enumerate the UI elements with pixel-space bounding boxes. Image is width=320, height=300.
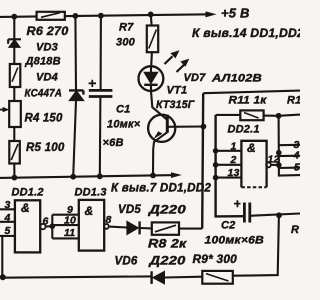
resistor R6 <box>37 12 65 20</box>
svg-text:10: 10 <box>64 215 76 227</box>
LED VD7 <box>139 66 164 91</box>
node mid rail R5 <box>12 175 18 181</box>
capacitor C2 <box>234 200 300 222</box>
node DD1.3 input tie <box>50 223 56 229</box>
zener VD4 <box>69 90 83 100</box>
svg-text:С2: С2 <box>221 220 235 232</box>
svg-text:10мк×: 10мк× <box>107 119 141 131</box>
resistor R4 <box>9 101 21 127</box>
wire right vertical out12 <box>279 116 300 176</box>
wire DD2.2 pin stubs <box>279 145 300 168</box>
wire <box>13 87 15 101</box>
svg-text:&: & <box>21 201 30 215</box>
node top rail / left column junction <box>11 14 17 20</box>
node DD2.1 input 13 <box>213 175 219 181</box>
svg-text:VD4: VD4 <box>36 72 58 84</box>
node base junction <box>201 124 207 130</box>
node top rail C1 branch <box>98 13 104 19</box>
svg-text:R7: R7 <box>119 22 134 34</box>
node DD2.1 input 2 <box>213 162 219 168</box>
wire VT1 emitter down <box>152 149 154 175</box>
transistor VT1 <box>148 115 175 149</box>
svg-text:×6В: ×6В <box>103 137 124 149</box>
wire R8 to vertical A <box>179 228 202 230</box>
diode VD5 <box>127 221 152 234</box>
resistor R11 <box>240 110 263 120</box>
node bottom rail left <box>0 274 6 280</box>
wire C1 top <box>100 16 102 89</box>
gate DD2.1 <box>216 141 279 188</box>
svg-text:11: 11 <box>64 227 75 239</box>
wire bottom-left pin5 drop <box>1 236 3 277</box>
resistor R9 <box>202 271 233 284</box>
node mid rail VD4 branch <box>70 174 76 180</box>
node mid rail C1 branch <box>97 173 103 179</box>
svg-text:Д220: Д220 <box>148 254 185 268</box>
wire LED to VT1 collector <box>151 91 167 120</box>
wire C1 bottom <box>99 97 102 177</box>
wire vertical A <box>202 93 203 228</box>
svg-text:КТ315Г: КТ315Г <box>156 99 196 111</box>
svg-text:Д818В: Д818В <box>25 56 61 68</box>
svg-text:2: 2 <box>230 154 237 166</box>
svg-text:R11 1к: R11 1к <box>229 95 268 107</box>
wire VD3 to box <box>13 47 15 63</box>
wire R11 left <box>216 114 241 116</box>
diode VD6 <box>152 271 203 284</box>
wire DD2 input vertical B <box>216 115 245 216</box>
svg-text:300: 300 <box>116 37 136 49</box>
svg-text:6: 6 <box>43 216 49 228</box>
wire to right edge (upper) <box>203 91 300 94</box>
node top rail R7 branch <box>148 12 154 18</box>
wire mid rail (ground to pin 7) <box>0 175 153 178</box>
wire R11 right to edge <box>264 115 300 116</box>
svg-text:5: 5 <box>294 162 300 174</box>
svg-text:DD1.2: DD1.2 <box>12 187 44 199</box>
svg-text:Д220: Д220 <box>148 203 186 217</box>
svg-text:1: 1 <box>231 141 237 153</box>
svg-text:4: 4 <box>293 150 300 162</box>
wire DD1.3 input tie <box>52 215 79 239</box>
svg-text:АЛ102В: АЛ102В <box>211 73 262 85</box>
node out12 tie upper <box>276 150 282 156</box>
node out12 tie <box>276 162 282 168</box>
svg-text:+5 В: +5 В <box>221 6 250 21</box>
wire bottom rail <box>2 276 151 277</box>
wire R7 top <box>150 14 153 25</box>
node C2 right <box>276 212 282 218</box>
svg-text:К выв.7 DD1,DD2: К выв.7 DD1,DD2 <box>111 183 211 195</box>
svg-text:3: 3 <box>5 199 11 211</box>
gate DD1.2 <box>0 200 52 252</box>
node DD2.1 input 1 <box>213 148 219 154</box>
svg-text:100мк×6В: 100мк×6В <box>205 235 265 247</box>
svg-text:R6 270: R6 270 <box>27 26 69 38</box>
wire second vertical bottom <box>73 100 76 176</box>
svg-text:К выв.14 DD1,DD2: К выв.14 DD1,DD2 <box>192 26 300 40</box>
node top rail VD4 branch <box>73 13 79 19</box>
wire second vertical top <box>74 16 77 90</box>
wire R9 to right vertical <box>233 215 279 275</box>
wire top +5V rail <box>0 14 211 17</box>
node R11 right <box>276 113 282 119</box>
svg-text:DD1.3: DD1.3 <box>75 187 107 199</box>
svg-text:13: 13 <box>228 167 240 179</box>
wire R5 to mid rail <box>13 164 15 178</box>
svg-text:VD3: VD3 <box>36 42 58 54</box>
wire left column top <box>13 17 15 40</box>
svg-text:5: 5 <box>5 225 11 237</box>
zener VD3 <box>8 39 21 47</box>
resistor R8 <box>152 222 179 234</box>
wire <box>13 127 15 141</box>
svg-text:R4 150: R4 150 <box>25 113 63 125</box>
svg-text:С1: С1 <box>116 104 130 116</box>
svg-text:R8 2к: R8 2к <box>148 237 187 251</box>
svg-text:КС447А: КС447А <box>25 88 63 100</box>
svg-text:R9* 300: R9* 300 <box>193 254 238 266</box>
svg-text:VD7: VD7 <box>184 72 207 84</box>
wire R4 trimmer arrow <box>0 109 7 111</box>
svg-text:R5 100: R5 100 <box>26 142 65 154</box>
svg-text:4: 4 <box>4 212 11 224</box>
resistor (cropped label) box with slash <box>10 64 20 87</box>
node mid rail emitter <box>150 173 156 179</box>
wire R7 to LED <box>150 52 153 66</box>
svg-text:R: R <box>291 224 299 236</box>
LED emission arrows <box>165 50 190 72</box>
resistor R7 <box>147 26 158 53</box>
svg-text:VD6: VD6 <box>115 256 138 268</box>
svg-text:&: & <box>85 204 94 218</box>
gate DD1.3 <box>79 200 127 251</box>
svg-text:&: & <box>247 141 256 155</box>
capacitor C1 <box>89 80 113 97</box>
wire VT1 base to node <box>167 125 203 127</box>
svg-text:DD2.1: DD2.1 <box>228 124 260 136</box>
svg-text:VT1: VT1 <box>167 85 188 97</box>
resistor R5 <box>9 141 19 164</box>
svg-text:VD5: VD5 <box>118 204 141 216</box>
svg-text:R1: R1 <box>287 95 300 107</box>
wire mid rail arrow to pin7 <box>153 174 176 176</box>
svg-text:12: 12 <box>268 154 280 166</box>
svg-text:8: 8 <box>106 214 112 226</box>
wire +5V arrowhead <box>206 11 217 17</box>
